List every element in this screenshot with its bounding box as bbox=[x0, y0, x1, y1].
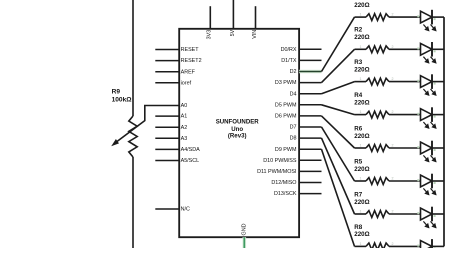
svg-text:R6: R6 bbox=[354, 125, 362, 132]
svg-text:R2: R2 bbox=[354, 27, 362, 34]
svg-text:N/C: N/C bbox=[181, 207, 190, 213]
svg-text:2: 2 bbox=[392, 210, 394, 214]
svg-text:R5: R5 bbox=[354, 158, 362, 165]
svg-text:220Ω: 220Ω bbox=[354, 166, 369, 173]
svg-text:R3: R3 bbox=[354, 59, 362, 66]
svg-text:1: 1 bbox=[360, 45, 362, 49]
svg-text:D10 PWM/SS: D10 PWM/SS bbox=[263, 158, 297, 164]
svg-text:A0: A0 bbox=[181, 103, 188, 109]
svg-text:5V: 5V bbox=[230, 29, 236, 36]
svg-text:D12/MISO: D12/MISO bbox=[271, 180, 296, 186]
svg-text:D9 PWM: D9 PWM bbox=[275, 147, 297, 153]
svg-text:1: 1 bbox=[360, 177, 362, 181]
svg-text:R4: R4 bbox=[354, 92, 362, 99]
svg-text:R7: R7 bbox=[354, 191, 362, 198]
svg-text:2: 2 bbox=[392, 77, 394, 81]
svg-text:220Ω: 220Ω bbox=[354, 34, 369, 41]
svg-text:1: 1 bbox=[360, 110, 362, 114]
svg-text:1: 1 bbox=[360, 144, 362, 148]
svg-text:A1: A1 bbox=[181, 114, 188, 120]
svg-text:D1/TX: D1/TX bbox=[281, 58, 297, 64]
svg-text:A4/SDA: A4/SDA bbox=[181, 147, 201, 153]
svg-text:220Ω: 220Ω bbox=[354, 199, 369, 206]
svg-text:R9: R9 bbox=[112, 88, 121, 95]
svg-text:220Ω: 220Ω bbox=[354, 99, 369, 106]
svg-text:2: 2 bbox=[392, 242, 394, 246]
svg-text:D7: D7 bbox=[290, 125, 297, 131]
svg-text:220Ω: 220Ω bbox=[354, 133, 369, 140]
svg-text:1: 1 bbox=[360, 210, 362, 214]
svg-text:RESET2: RESET2 bbox=[181, 58, 202, 64]
svg-text:D2: D2 bbox=[290, 69, 297, 75]
svg-text:2: 2 bbox=[392, 144, 394, 148]
svg-text:ioref: ioref bbox=[181, 80, 192, 86]
svg-text:D11 PWM/MOSI: D11 PWM/MOSI bbox=[257, 169, 296, 175]
svg-text:GND: GND bbox=[242, 223, 248, 235]
svg-text:(Rev3): (Rev3) bbox=[228, 133, 247, 140]
svg-text:3V3: 3V3 bbox=[207, 30, 213, 40]
svg-text:R8: R8 bbox=[354, 224, 362, 231]
svg-text:100kΩ: 100kΩ bbox=[112, 97, 133, 104]
svg-text:VIN: VIN bbox=[252, 30, 258, 39]
svg-text:D4: D4 bbox=[290, 91, 297, 97]
svg-text:A2: A2 bbox=[181, 125, 188, 131]
svg-text:SUNFOUNDER: SUNFOUNDER bbox=[216, 119, 260, 126]
svg-text:220Ω: 220Ω bbox=[354, 231, 369, 238]
svg-text:A5/SCL: A5/SCL bbox=[181, 158, 200, 164]
svg-text:2: 2 bbox=[392, 110, 394, 114]
svg-text:2: 2 bbox=[392, 13, 394, 17]
svg-text:220Ω: 220Ω bbox=[354, 66, 369, 73]
svg-text:D0/RX: D0/RX bbox=[281, 47, 297, 53]
svg-text:A3: A3 bbox=[181, 136, 188, 142]
svg-text:1: 1 bbox=[360, 77, 362, 81]
svg-text:2: 2 bbox=[392, 45, 394, 49]
svg-text:D3 PWM: D3 PWM bbox=[275, 80, 297, 86]
svg-text:1: 1 bbox=[360, 242, 362, 246]
svg-text:220Ω: 220Ω bbox=[354, 2, 369, 9]
svg-text:1: 1 bbox=[360, 13, 362, 17]
svg-text:D13/SCK: D13/SCK bbox=[274, 191, 297, 197]
svg-text:D5 PWM: D5 PWM bbox=[275, 102, 297, 108]
svg-text:D8: D8 bbox=[290, 136, 297, 142]
svg-text:RESET: RESET bbox=[181, 47, 200, 53]
svg-text:D6 PWM: D6 PWM bbox=[275, 114, 297, 120]
svg-text:AREF: AREF bbox=[181, 69, 196, 75]
svg-text:2: 2 bbox=[392, 177, 394, 181]
